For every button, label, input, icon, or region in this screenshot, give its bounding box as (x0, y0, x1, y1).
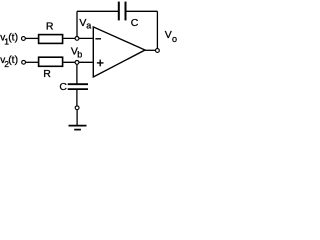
node Va junction circle (75, 37, 79, 41)
resistor R1 (39, 35, 63, 44)
node circle above ground (75, 106, 79, 110)
wire grounding capacitor to node circle (76, 90, 78, 106)
resistor R2 (39, 57, 63, 66)
capacitor C feedback plates (118, 2, 120, 21)
wire op-amp output to terminal Vo (145, 49, 155, 51)
svg-text:b: b (77, 49, 82, 59)
svg-text:o: o (172, 34, 177, 44)
op-amp U1 triangle (93, 27, 145, 77)
wire v2 terminal to R2 (26, 61, 39, 63)
terminal v2 (22, 60, 26, 64)
terminal Vo circle (156, 49, 160, 53)
svg-text:(t): (t) (8, 54, 18, 66)
ground symbol (69, 125, 87, 127)
wire node circle to ground (76, 110, 78, 126)
svg-text:a: a (86, 21, 91, 31)
svg-text:V: V (165, 29, 172, 41)
op-amp inverting input minus sign (95, 38, 101, 40)
svg-text:R: R (43, 68, 51, 80)
wire R2 to node Vb and op-amp non-inverting input (63, 61, 92, 63)
svg-text:(t): (t) (8, 32, 18, 44)
svg-text:R: R (46, 20, 54, 32)
wire node Vb down to grounding capacitor (76, 62, 78, 83)
wire feedback down to output node (156, 11, 158, 48)
node Vb junction circle (75, 61, 79, 65)
wire node Va up to feedback rail (76, 11, 78, 38)
op-amp non-inverting input plus sign (97, 62, 104, 64)
terminal v1 (22, 37, 26, 41)
wire feedback rail right segment (126, 10, 157, 12)
svg-text:C: C (131, 17, 139, 29)
svg-text:C: C (59, 81, 67, 93)
wire v1 terminal to R1 (25, 37, 38, 39)
wire R1 to node Va and op-amp inverting input (63, 37, 92, 39)
capacitor C grounding plates (68, 83, 88, 85)
wire feedback rail left segment (77, 10, 118, 12)
